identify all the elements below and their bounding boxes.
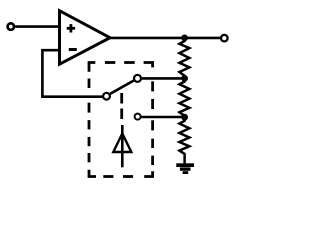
actuator arrow shaft xyxy=(121,125,124,167)
ground xyxy=(176,163,194,174)
switch S1 left contact xyxy=(103,93,110,100)
op-amp minus label xyxy=(69,48,77,51)
op-amp plus label xyxy=(67,24,75,32)
wire input to op-amp non-inverting input xyxy=(15,25,59,28)
node B junction dot xyxy=(181,75,188,82)
op-amp U1 xyxy=(60,11,111,64)
output terminal xyxy=(221,35,228,42)
input terminal xyxy=(8,23,14,29)
resistor R2 xyxy=(179,78,189,117)
node A junction dot xyxy=(181,35,188,42)
mechanical linkage dashed line xyxy=(120,93,123,119)
switch S1 arm xyxy=(110,81,133,94)
switch S1 right contact xyxy=(134,75,141,82)
resistor R3 xyxy=(179,117,189,163)
wire S1 to node B xyxy=(142,77,185,80)
dashed box left edge xyxy=(88,79,91,163)
resistor R1 xyxy=(179,38,189,79)
node C junction dot xyxy=(181,114,188,121)
actuator arrow head xyxy=(113,134,131,153)
dashed box bottom edge xyxy=(89,170,153,177)
wire op-amp inverting input feedback left xyxy=(42,50,102,96)
dashed box right edge xyxy=(151,81,154,165)
wire node A to output terminal xyxy=(185,37,220,40)
wire op-amp output to node A xyxy=(108,37,185,40)
dashed box top edge xyxy=(89,63,153,72)
switch S2 contact xyxy=(135,114,141,120)
wire S2 to node C xyxy=(141,116,184,119)
